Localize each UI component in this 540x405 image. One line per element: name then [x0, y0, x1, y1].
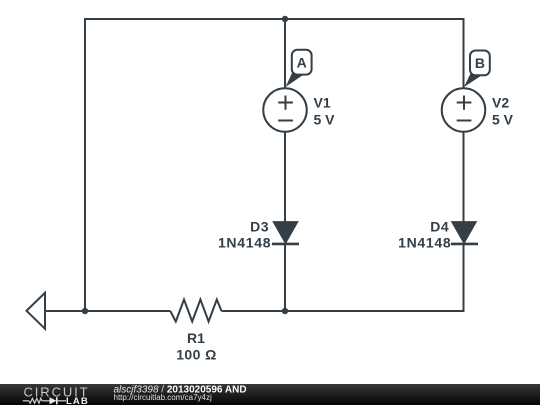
node junction dot (285,311): [282, 308, 288, 314]
wire: V1 top stem: [284, 19, 286, 89]
wire: left vertical + top horizontal + V2 top stem: [85, 19, 464, 311]
wire: D3 cathode to bottom node: [284, 244, 286, 311]
node junction dot top (285,19): [282, 16, 288, 22]
V1 plus sign: [278, 96, 293, 110]
resistor R1 zigzag: [170, 300, 221, 322]
wire: bottom left segment from terminal to R1: [45, 310, 170, 312]
diode D4 cathode bar: [451, 243, 478, 246]
svg-text:A: A: [297, 54, 307, 70]
logo wire mid: [42, 400, 50, 402]
svg-text:1N4148: 1N4148: [398, 234, 451, 250]
svg-text:B: B: [475, 55, 485, 71]
logo resistor zigzag: [29, 398, 42, 403]
svg-text:5 V: 5 V: [314, 112, 336, 128]
node A label box: [292, 50, 312, 75]
voltage source V2 circle: [442, 88, 486, 132]
V2 minus sign: [457, 120, 472, 122]
V2 plus sign: [457, 96, 472, 110]
svg-text:R1: R1: [187, 330, 205, 346]
node junction dot (85,311): [82, 308, 88, 314]
V1 minus sign: [278, 120, 293, 122]
logo diode triangle: [50, 397, 57, 404]
output terminal arrow: [27, 293, 46, 329]
logo wire right: [58, 400, 67, 402]
logo diode bar: [56, 397, 58, 404]
diode D3 triangle: [274, 222, 298, 243]
svg-text:V2: V2: [492, 95, 509, 111]
svg-text:D4: D4: [430, 218, 449, 234]
wire: V1 bottom stem to D3: [284, 132, 286, 223]
svg-text:http://circuitlab.com/ca7y4zj: http://circuitlab.com/ca7y4zj: [114, 393, 212, 402]
voltage source V1 circle: [263, 88, 307, 132]
node A pointer: [286, 72, 304, 88]
svg-text:LAB: LAB: [66, 396, 89, 405]
diode D4 triangle: [452, 222, 476, 243]
svg-text:V1: V1: [314, 95, 331, 111]
svg-text:D3: D3: [250, 218, 269, 234]
wire: D4 cathode down + bottom wire right segment: [222, 244, 464, 311]
wire: V2 bottom stem to D4: [463, 132, 465, 223]
logo wire left: [23, 400, 29, 402]
diode D3 cathode bar: [272, 243, 299, 246]
svg-text:100 Ω: 100 Ω: [176, 346, 216, 362]
svg-text:5 V: 5 V: [492, 112, 514, 128]
node B pointer: [464, 72, 482, 87]
footer bar: [0, 384, 540, 405]
node B label box: [470, 51, 490, 76]
svg-text:1N4148: 1N4148: [218, 234, 271, 250]
